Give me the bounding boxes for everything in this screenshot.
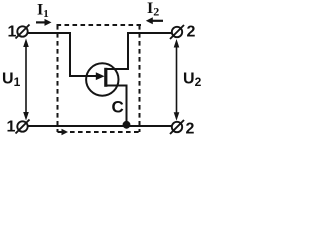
svg-text:U1: U1 xyxy=(2,71,21,90)
svg-text:1: 1 xyxy=(7,119,16,136)
svg-text:I2: I2 xyxy=(147,0,159,19)
svg-text:I1: I1 xyxy=(37,2,49,21)
svg-text:U2: U2 xyxy=(183,71,202,90)
svg-text:1: 1 xyxy=(8,24,17,41)
svg-text:2: 2 xyxy=(187,24,196,41)
svg-text:C: C xyxy=(112,98,124,117)
svg-text:2: 2 xyxy=(186,121,195,138)
